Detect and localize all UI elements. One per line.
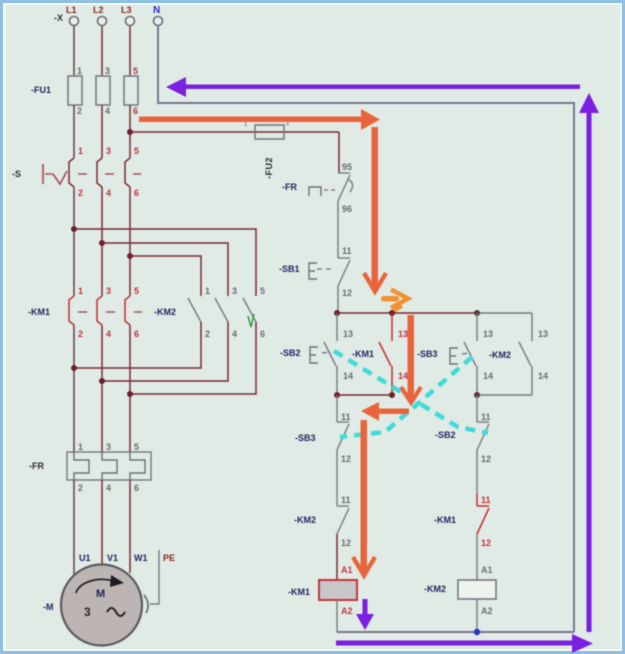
svg-text:3: 3 — [84, 605, 91, 619]
svg-text:13: 13 — [343, 329, 353, 339]
flow arrow orange vertical from FU2 down past SB1 — [364, 127, 386, 292]
wire L3 terminal to fuse — [129, 26, 131, 76]
wire KM2 pole2 bottom to L2 line — [102, 322, 228, 381]
svg-text:-FR: -FR — [282, 182, 297, 192]
svg-text:11: 11 — [481, 495, 491, 505]
junction KM2-L2 — [99, 378, 105, 384]
junction L1 tap — [71, 226, 77, 232]
push button SB2 NC contact 11-12 — [477, 412, 491, 464]
control bus wire — [337, 312, 477, 314]
wire fuse3 to switch S pole3 — [129, 105, 131, 158]
wire control bottom rail — [337, 631, 574, 633]
svg-text:PE: PE — [163, 553, 175, 563]
svg-text:4: 4 — [106, 329, 111, 339]
svg-text:-KM1: -KM1 — [434, 515, 456, 525]
svg-text:5: 5 — [260, 286, 265, 296]
wire KM1 pole1 down to FR — [73, 325, 75, 453]
flow arrow purple small down at KM1 coil A2 — [356, 599, 374, 630]
wire KM2 coil to bottom rail — [476, 599, 478, 632]
contactor KM1 aux NO contact 13-14 — [379, 313, 408, 395]
motor M body — [61, 565, 142, 646]
KM2 main pole 3 — [243, 286, 265, 339]
svg-text:1: 1 — [77, 66, 82, 76]
svg-text:-KM1: -KM1 — [288, 587, 310, 597]
junction bus at KM1 aux branch — [389, 310, 395, 316]
svg-text:3: 3 — [105, 66, 110, 76]
flow arrow purple bottom rightward — [336, 634, 593, 653]
junction KM2 branch on bottom rail — [474, 629, 480, 635]
push button SB3 NC contact 11-12 — [337, 412, 351, 464]
wire fuse1 to switch S pole1 — [73, 105, 75, 158]
coil KM1 — [288, 580, 357, 600]
svg-text:3: 3 — [106, 286, 111, 296]
junction L2 tap — [99, 240, 105, 246]
svg-text:-KM2: -KM2 — [294, 515, 316, 525]
svg-text:11: 11 — [342, 246, 352, 256]
FR heater element 2 — [102, 442, 117, 493]
svg-text:-SB2: -SB2 — [435, 430, 456, 440]
svg-text:6: 6 — [134, 483, 139, 493]
svg-text:A1: A1 — [341, 565, 353, 575]
node N — [153, 5, 163, 26]
svg-text:5: 5 — [133, 66, 138, 76]
wire KM1 NC to KM2 coil — [476, 534, 478, 580]
node L2 — [93, 5, 107, 26]
wire SB2/KM1aux lower connector — [337, 394, 392, 396]
svg-text:-SB3: -SB3 — [417, 349, 438, 359]
svg-text:4: 4 — [106, 188, 111, 198]
switch S actuator — [43, 164, 67, 184]
svg-text:13: 13 — [398, 329, 408, 339]
coil KM2 — [424, 580, 496, 599]
svg-text:12: 12 — [342, 288, 352, 298]
svg-text:A2: A2 — [481, 606, 493, 616]
junction lower right branch — [474, 392, 480, 398]
svg-text:2: 2 — [78, 329, 83, 339]
svg-text:6: 6 — [133, 106, 138, 116]
junction control tap on L3 — [127, 129, 133, 135]
wire KM1 coil to bottom rail — [336, 600, 338, 632]
svg-text:-S: -S — [12, 169, 21, 179]
svg-text:11: 11 — [341, 495, 351, 505]
wire KM1 pole2 down to FR — [101, 325, 103, 453]
svg-text:12: 12 — [341, 538, 351, 548]
contactor KM1 NC interlock contact 11-12 — [477, 494, 491, 548]
wire L1 tap to KM2 pole5 — [74, 229, 256, 296]
svg-text:3: 3 — [232, 286, 237, 296]
wire right branch to SB2 NC — [476, 395, 478, 422]
push button SB2 NO contact 13-14 — [324, 313, 353, 395]
junction bus at SB2 branch — [334, 310, 340, 316]
wire S pole2 down to KM1 — [101, 187, 103, 296]
svg-text:12: 12 — [481, 538, 491, 548]
svg-text:4: 4 — [232, 329, 237, 339]
FR heater element 3 — [130, 442, 145, 493]
FR aux NC contact 95-96 — [338, 162, 353, 214]
svg-text:-KM1: -KM1 — [352, 349, 374, 359]
wire fuse2 to switch S pole2 — [101, 105, 103, 158]
wire SB3/KM2aux lower connector — [477, 394, 532, 396]
svg-text:M: M — [96, 588, 105, 600]
fuse FU1 pole 2 — [96, 66, 110, 116]
svg-text:-KM2: -KM2 — [489, 350, 511, 360]
motor rotation arrow — [76, 575, 124, 593]
wire KM1 pole3 down to FR — [129, 325, 131, 453]
wire SB2 NC to KM1 NC — [476, 450, 478, 494]
svg-text:6: 6 — [260, 329, 265, 339]
thermal overload FR box — [67, 452, 151, 480]
svg-text:5: 5 — [134, 442, 139, 452]
svg-text:11: 11 — [481, 412, 491, 422]
wire S pole3 down to KM1 — [129, 187, 131, 296]
push button SB1 NC contact 11-12 — [338, 246, 352, 298]
svg-text:13: 13 — [483, 329, 493, 339]
flow arrow orange small right toward bus — [381, 290, 408, 312]
svg-text:1: 1 — [205, 286, 210, 296]
svg-text:A1: A1 — [481, 565, 493, 575]
KM1 linkage dashes — [78, 311, 142, 313]
svg-text:3: 3 — [106, 146, 111, 156]
switch S pole 3 — [125, 146, 139, 198]
node L1 — [66, 5, 79, 26]
green tick mark near KM2 pole3 — [248, 314, 254, 327]
svg-text:2: 2 — [77, 106, 82, 116]
svg-text:95: 95 — [342, 162, 352, 172]
wire L3 tap to KM2 pole1 — [130, 256, 201, 296]
PE wire to motor frame — [144, 550, 159, 613]
svg-text:-KM1: -KM1 — [28, 307, 50, 317]
junction KM2-L1 — [71, 365, 77, 371]
node L3 — [121, 5, 135, 26]
svg-text:L1: L1 — [66, 5, 77, 15]
push button SB3 NO contact 13-14 — [464, 313, 493, 395]
flow arrow orange left above SB3 NC — [361, 402, 409, 421]
fuse FU2 — [244, 121, 290, 139]
KM1 main pole 3 — [125, 286, 139, 339]
flow arrow orange down through KM1 aux — [401, 315, 421, 403]
svg-text:1: 1 — [78, 146, 83, 156]
svg-text:12: 12 — [341, 454, 351, 464]
svg-text:W1: W1 — [134, 553, 148, 563]
KM2 main pole 2 — [215, 286, 237, 339]
svg-text:4: 4 — [105, 106, 110, 116]
wire N rail: N terminal down, right, down right side to bottom — [158, 26, 574, 632]
svg-text:2: 2 — [78, 188, 83, 198]
wire FR to motor W1 — [129, 480, 131, 573]
wire FR aux to SB1 — [337, 201, 339, 258]
svg-text:1: 1 — [78, 286, 83, 296]
wire L2 terminal to fuse — [101, 26, 103, 76]
flow arrow purple top leftward — [166, 77, 580, 97]
svg-text:N: N — [153, 5, 160, 16]
switch S pole 2 — [97, 146, 111, 198]
KM2 main pole 1 — [188, 286, 210, 339]
svg-text:11: 11 — [341, 412, 351, 422]
wire S pole1 down to KM1 — [73, 187, 75, 296]
wire L3 tap to fuse FU2 — [130, 131, 339, 133]
flow arrow purple right side upward — [579, 93, 599, 632]
svg-text:-X: -X — [54, 13, 63, 23]
wire FR to motor U1 — [73, 480, 75, 578]
wire FU2 to FR aux contact — [338, 132, 340, 173]
wire left branch to SB3 NC — [336, 395, 338, 422]
svg-text:12: 12 — [481, 454, 491, 464]
svg-text:-KM2: -KM2 — [154, 307, 176, 317]
wire L1 terminal to fuse — [73, 26, 75, 76]
motor AC tilde — [107, 608, 125, 616]
wire SB3 NC to KM2 NC — [336, 450, 338, 506]
svg-text:5: 5 — [134, 146, 139, 156]
contactor KM2 aux NO contact 13-14 — [519, 313, 548, 395]
svg-text:A2: A2 — [341, 606, 353, 616]
svg-text:96: 96 — [342, 204, 352, 214]
svg-text:5: 5 — [134, 286, 139, 296]
svg-text:-FU1: -FU1 — [31, 85, 51, 95]
svg-text:U1: U1 — [79, 553, 91, 563]
switch S pole 1 — [69, 146, 83, 198]
SB1 label and actuator — [279, 263, 334, 279]
FR aux label and trip symbol — [282, 182, 335, 196]
junction lower KM1 aux — [389, 392, 395, 398]
svg-text:-FU2: -FU2 — [264, 157, 274, 179]
wire KM2 pole3 bottom to L3 line — [130, 322, 256, 394]
wire SB1 to control bus — [337, 286, 339, 313]
svg-text:3: 3 — [106, 442, 111, 452]
contactor KM2 NC interlock contact 11-12 — [337, 495, 351, 548]
svg-text:14: 14 — [398, 371, 408, 381]
svg-text:-M: -M — [43, 602, 54, 612]
junction lower left branch — [334, 392, 340, 398]
svg-text:6: 6 — [134, 188, 139, 198]
svg-text:-SB3: -SB3 — [295, 433, 316, 443]
wire L2 tap to KM2 pole3 — [102, 243, 228, 296]
switch S linkage dashes — [78, 173, 141, 175]
wire KM2 NC to KM1 coil — [336, 534, 338, 580]
svg-text:-SB2: -SB2 — [280, 348, 301, 358]
svg-text:-KM2: -KM2 — [424, 584, 446, 594]
KM1 main pole 1 — [69, 286, 83, 339]
svg-text:L3: L3 — [121, 5, 132, 15]
svg-text:2: 2 — [205, 329, 210, 339]
flow arrow orange top horizontal — [139, 109, 380, 130]
KM1 main pole 2 — [97, 286, 111, 339]
svg-text:14: 14 — [483, 371, 493, 381]
wire FR to motor V1 — [101, 480, 103, 566]
svg-text:6: 6 — [134, 329, 139, 339]
svg-text:14: 14 — [343, 371, 353, 381]
flow arrow orange down to KM1 coil A1 — [353, 420, 375, 576]
svg-text:L2: L2 — [93, 5, 104, 15]
svg-text:14: 14 — [538, 371, 548, 381]
interlock cyan dashed line SB3 to SB3-NC — [340, 357, 472, 437]
fuse FU1 pole 3 — [124, 66, 138, 116]
FR heater element 1 — [74, 442, 89, 493]
svg-text:13: 13 — [538, 329, 548, 339]
svg-text:-FR: -FR — [29, 461, 44, 471]
junction KM2-L3 — [127, 391, 133, 397]
svg-text:4: 4 — [106, 483, 111, 493]
SB3 label and actuator — [417, 348, 471, 364]
svg-text:1: 1 — [78, 442, 83, 452]
junction bus at SB3 branch — [474, 310, 480, 316]
svg-text:-SB1: -SB1 — [279, 264, 300, 274]
interlock cyan dashed line SB2 to SB2-NC — [334, 351, 488, 433]
wire KM2 pole1 bottom to L1 line — [74, 322, 201, 368]
svg-text:2: 2 — [78, 483, 83, 493]
svg-text:V1: V1 — [107, 553, 118, 563]
junction L3 tap — [127, 253, 133, 259]
fuse FU1 pole 1 — [68, 66, 82, 116]
SB2 label and actuator — [280, 347, 331, 363]
